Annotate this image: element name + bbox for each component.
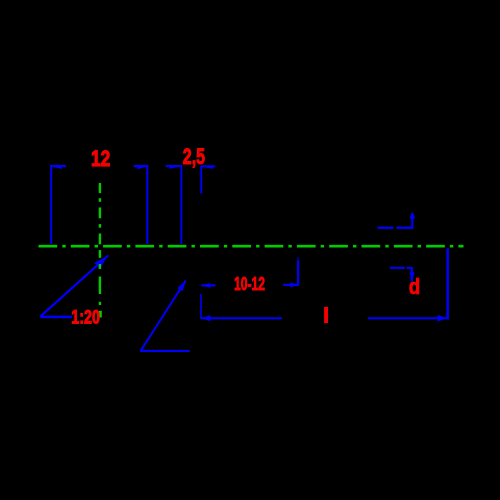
- svg-text:10-12: 10-12: [234, 274, 265, 294]
- d upper arrow (up): [409, 212, 415, 219]
- centerline horizontal (axis): [39, 245, 464, 248]
- dimension line tail D (outside-right of "2,5"): [201, 165, 215, 167]
- svg-text:1:20: 1:20: [71, 307, 100, 328]
- arrowhead pointing left at x=201: [201, 166, 213, 169]
- dimension line segment B (right of "12"): [134, 165, 149, 167]
- arrowhead left of dimension 12: [50, 166, 62, 169]
- extension line x=147: [146, 165, 148, 244]
- dim l right arrow: [438, 315, 448, 322]
- extension line x=181: [180, 165, 182, 244]
- d lower arrow (down): [410, 272, 415, 282]
- d lower leader vertical: [411, 267, 413, 282]
- short extension line x=201: [200, 166, 202, 194]
- slope triangle 2 hypotenuse: [141, 281, 186, 351]
- dim l left segment: [201, 317, 282, 319]
- arrowhead pointing right at x=181: [169, 166, 181, 169]
- dim l left arrow: [202, 315, 211, 321]
- extension line x=298 faded top: [297, 257, 299, 261]
- arrowhead on hypotenuse 2: [177, 280, 186, 292]
- arrowhead right of dimension 12: [137, 166, 148, 169]
- label l (drawn as bar): [324, 307, 328, 323]
- svg-text:12: 12: [91, 146, 110, 171]
- d lower leader tail 2: [407, 267, 412, 269]
- slope triangle 2 base: [140, 350, 190, 352]
- d lower leader tail 1: [390, 267, 405, 269]
- arrowhead on hypotenuse 1: [94, 256, 107, 269]
- dim 10-12 left arrow: [202, 283, 211, 288]
- dimension line tail C (outside-left of "2,5"): [166, 165, 182, 167]
- d upper leader vertical: [411, 213, 413, 229]
- dimension line segment A (left of "12"): [50, 165, 66, 167]
- slope triangle 1 hypotenuse: [40, 255, 108, 316]
- d upper leader tail 2: [396, 227, 411, 229]
- dim 10-12 left tail: [201, 284, 215, 286]
- svg-text:d: d: [409, 274, 421, 299]
- extension line x=447: [446, 248, 449, 319]
- d upper leader tail 1: [378, 227, 394, 229]
- dim l right segment: [368, 317, 448, 319]
- extension line x=51: [50, 165, 52, 244]
- dim 10-12 right arrow: [290, 283, 299, 288]
- extension line x=200.8 lower: [200, 294, 202, 319]
- dim 10-12 right tail: [283, 284, 299, 286]
- svg-text:2,5: 2,5: [183, 144, 205, 169]
- slope triangle 1 base: [40, 316, 72, 319]
- centerline vertical (dash): [99, 183, 102, 318]
- extension line x=298: [297, 261, 299, 286]
